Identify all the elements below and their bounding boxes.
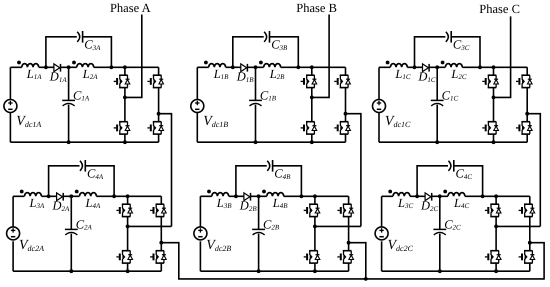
node C3-branch right junction <box>481 194 485 198</box>
wire C1 branch <box>258 196 260 271</box>
node C3-branch right junction <box>110 65 114 69</box>
node bridge right-leg midpoint <box>347 241 351 245</box>
wire lower-bridge left-mid link phase C <box>496 225 540 227</box>
node C3-branch right junction <box>478 65 482 69</box>
wire main line <box>379 66 527 68</box>
transistor C1-S1 <box>482 75 498 88</box>
transistor C2-S1 <box>485 204 501 217</box>
label L4B <box>272 196 288 210</box>
label C2B <box>263 217 280 231</box>
dc source Vdc1C <box>373 100 386 113</box>
transistor A2-S2 <box>150 204 166 217</box>
node bridge left-leg top <box>494 194 498 198</box>
node C1 top junction <box>438 194 442 198</box>
wire bottom rail <box>10 141 158 143</box>
node C3-branch left junction <box>47 194 51 198</box>
wire lower-bridge left-mid link phase A <box>128 225 172 227</box>
inductor L2B <box>259 61 281 68</box>
transistor B2-S2 <box>337 204 353 217</box>
wire left branch of Vdc1A <box>9 67 11 142</box>
label Vdc1A <box>16 114 41 129</box>
node bridge left-leg midpoint <box>126 225 130 229</box>
dc source Vdc2A <box>7 227 20 240</box>
transistor B2-S3 <box>304 250 320 263</box>
diode D2B <box>244 193 251 201</box>
label L4A <box>85 196 101 210</box>
wire phase C to bus <box>530 243 544 280</box>
node bridge left-leg midpoint <box>123 96 127 100</box>
wire main line <box>10 66 158 68</box>
node bridge left-leg midpoint <box>313 225 317 229</box>
label D1A <box>49 70 68 84</box>
node C1 bottom junction <box>69 269 73 273</box>
node bridge left-leg top <box>492 65 496 69</box>
node bus junction phase B <box>364 277 368 281</box>
capacitor C2A <box>65 229 78 235</box>
inductor L3A <box>20 190 42 197</box>
wire C3 branch right <box>451 37 480 68</box>
inductor L4B <box>262 190 284 197</box>
wire left branch of Vdc2C <box>381 196 383 271</box>
label Vdc2A <box>19 238 44 253</box>
label L3A <box>29 196 45 210</box>
wire bottom rail <box>200 270 348 272</box>
dc source Vdc1A <box>4 100 17 113</box>
wire C3 branch right <box>269 37 298 68</box>
wire bottom rail <box>197 141 345 143</box>
transistor C1-S4 <box>516 121 532 134</box>
wire bridge right leg <box>348 196 350 271</box>
node C3-branch right junction <box>296 65 300 69</box>
wire bridge right leg <box>158 67 160 142</box>
wire main line <box>197 66 345 68</box>
transistor A1-S2 <box>147 75 163 88</box>
wire main line <box>382 195 530 197</box>
node bridge left-leg midpoint <box>492 96 496 100</box>
wire bridge left leg <box>311 67 313 142</box>
wire phase A output <box>125 15 142 98</box>
transistor C2-S3 <box>485 250 501 263</box>
wire left branch of Vdc1B <box>196 67 198 142</box>
label L2B <box>269 67 285 81</box>
label C4C <box>456 167 473 181</box>
label Vdc2B <box>206 238 231 253</box>
dc source Vdc2C <box>375 227 388 240</box>
wire C3 branch right <box>272 166 301 197</box>
diode D2A <box>57 193 64 201</box>
label C1B <box>260 88 277 102</box>
wire C1 branch <box>68 67 70 142</box>
node C1 bottom junction <box>254 140 258 144</box>
wire cascade link phase A <box>159 114 172 227</box>
wire C3 branch left <box>233 37 264 68</box>
svg-text:Phase A: Phase A <box>110 1 151 15</box>
transistor B2-S1 <box>304 204 320 217</box>
label L3B <box>216 196 232 210</box>
node bridge left-leg bottom <box>494 269 498 273</box>
wire bottom rail <box>379 141 527 143</box>
capacitor C1B <box>249 100 262 106</box>
label L2A <box>82 67 98 81</box>
node bridge right-leg midpoint <box>157 112 161 116</box>
wire C1 branch <box>70 196 72 271</box>
inductor L2C <box>441 61 463 68</box>
label C3A <box>84 38 101 52</box>
svg-text:Phase C: Phase C <box>479 2 520 16</box>
wire bridge right leg <box>529 196 531 271</box>
node C3-branch right junction <box>300 194 304 198</box>
wire bottom rail <box>382 270 530 272</box>
wire cascade link phase C <box>527 114 540 227</box>
label L1A <box>26 67 42 81</box>
transistor A2-S4 <box>150 250 166 263</box>
transistor A2-S1 <box>116 204 132 217</box>
capacitor C1A <box>62 100 75 106</box>
node C3-branch left junction <box>415 194 419 198</box>
wire lower-bridge left-mid link phase B <box>315 225 361 227</box>
label C1A <box>73 88 90 102</box>
wire phase B output <box>312 15 329 98</box>
node C1 top junction <box>435 65 439 69</box>
wire C3 branch left <box>236 166 267 197</box>
wire bridge left leg <box>493 67 495 142</box>
node C3-branch left junction <box>234 194 238 198</box>
wire bridge right leg <box>160 196 162 271</box>
wire main line <box>200 195 348 197</box>
wire phase B to bus <box>349 243 366 279</box>
label D1C <box>417 70 436 84</box>
transistor C1-S2 <box>516 75 532 88</box>
node C1 top junction <box>254 65 258 69</box>
node bridge left-leg bottom <box>313 269 317 273</box>
label C3C <box>453 38 470 52</box>
wire C3 branch left <box>415 37 446 68</box>
node C1 top junction <box>67 65 71 69</box>
wire bridge left leg <box>314 196 316 271</box>
wire left branch of Vdc1C <box>378 67 380 142</box>
node bridge left-leg top <box>126 194 130 198</box>
wire C1 branch <box>436 67 438 142</box>
label C2A <box>76 217 93 231</box>
wire bridge right leg <box>526 67 528 142</box>
wire bridge left leg <box>495 196 497 271</box>
wire bridge right leg <box>345 67 347 142</box>
wire C3 branch left <box>46 37 77 68</box>
wire C3 branch left <box>417 166 448 197</box>
transistor C2-S2 <box>519 204 535 217</box>
wire cascade link phase B <box>346 114 361 227</box>
node bridge left-leg midpoint <box>310 96 314 100</box>
wire C1 branch <box>255 67 257 142</box>
inductor L4A <box>75 190 97 197</box>
label Vdc1C <box>385 114 411 129</box>
inductor L2A <box>72 61 94 68</box>
capacitor C4C <box>448 160 453 172</box>
node bridge left-leg bottom <box>310 140 314 144</box>
node C1 bottom junction <box>435 140 439 144</box>
wire phase C output <box>494 16 511 97</box>
capacitor C4A <box>80 160 85 172</box>
inductor L3B <box>207 190 229 197</box>
wire left branch of Vdc2A <box>12 196 14 271</box>
transistor C2-S4 <box>519 250 535 263</box>
transistor A2-S3 <box>116 250 132 263</box>
inductor L4C <box>443 190 465 197</box>
node C1 bottom junction <box>67 140 71 144</box>
wire C3 branch left <box>49 166 80 197</box>
wire main line <box>13 195 161 197</box>
transistor C1-S3 <box>482 121 498 134</box>
transistor B1-S2 <box>334 75 350 88</box>
wire C3 branch right <box>85 166 114 197</box>
inductor L1A <box>17 61 39 68</box>
node bridge right-leg midpoint <box>525 112 529 116</box>
diode D1A <box>54 64 61 72</box>
node bridge right-leg midpoint <box>159 241 163 245</box>
label L1C <box>394 67 410 81</box>
node C3-branch left junction <box>44 65 48 69</box>
capacitor C1C <box>431 100 444 106</box>
capacitor C2B <box>252 229 265 235</box>
label C4A <box>87 167 104 181</box>
node C1 bottom junction <box>438 269 442 273</box>
node C1 bottom junction <box>257 269 261 273</box>
label C3B <box>271 38 288 52</box>
transistor B2-S4 <box>337 250 353 263</box>
node bridge right-leg midpoint <box>528 241 532 245</box>
node bridge left-leg top <box>123 65 127 69</box>
capacitor C3B <box>264 31 269 43</box>
svg-text:Phase B: Phase B <box>296 1 337 15</box>
label L3C <box>397 196 413 210</box>
transistor B1-S4 <box>334 121 350 134</box>
label Vdc1B <box>203 114 228 129</box>
node bridge right-leg midpoint <box>344 112 348 116</box>
inductor L3C <box>388 190 410 197</box>
label D2B <box>239 199 258 213</box>
transistor A1-S3 <box>114 121 130 134</box>
capacitor C2C <box>433 229 446 235</box>
label L4C <box>453 196 469 210</box>
transistor A1-S4 <box>147 121 163 134</box>
diode D1C <box>423 64 430 72</box>
node C3-branch left junction <box>231 65 235 69</box>
diode D1B <box>241 64 248 72</box>
label C4B <box>274 167 291 181</box>
transistor B1-S1 <box>301 75 317 88</box>
dc source Vdc1B <box>191 100 204 113</box>
label L2C <box>450 67 466 81</box>
capacitor C3A <box>77 31 82 43</box>
wire C3 branch right <box>82 37 111 68</box>
diode D2C <box>425 193 432 201</box>
wire bridge left leg <box>127 196 129 271</box>
inductor L1B <box>204 61 226 68</box>
wire left branch of Vdc2B <box>199 196 201 271</box>
node C3-branch right junction <box>112 194 116 198</box>
wire C1 branch <box>439 196 441 271</box>
node bridge left-leg bottom <box>126 269 130 273</box>
capacitor C3C <box>446 31 451 43</box>
label C1C <box>442 88 459 102</box>
label D1B <box>236 70 255 84</box>
node C3-branch left junction <box>413 65 417 69</box>
node C1 top junction <box>69 194 73 198</box>
transistor B1-S3 <box>301 121 317 134</box>
node C1 top junction <box>257 194 261 198</box>
label Vdc2C <box>388 238 414 253</box>
label D2A <box>52 199 71 213</box>
label L1B <box>213 67 229 81</box>
node bridge left-leg top <box>310 65 314 69</box>
label C2C <box>444 217 461 231</box>
wire C3 branch right <box>454 166 483 197</box>
node bridge left-leg top <box>313 194 317 198</box>
node bridge left-leg midpoint <box>494 225 498 229</box>
transistor A1-S1 <box>114 75 130 88</box>
node bridge left-leg bottom <box>123 140 127 144</box>
wire bridge left leg <box>124 67 126 142</box>
inductor L1C <box>386 61 408 68</box>
wire bottom bus from phase A <box>161 243 544 279</box>
capacitor C4B <box>267 160 272 172</box>
node bridge left-leg bottom <box>492 140 496 144</box>
wire bottom rail <box>13 270 161 272</box>
label D2C <box>420 199 439 213</box>
dc source Vdc2B <box>194 227 207 240</box>
